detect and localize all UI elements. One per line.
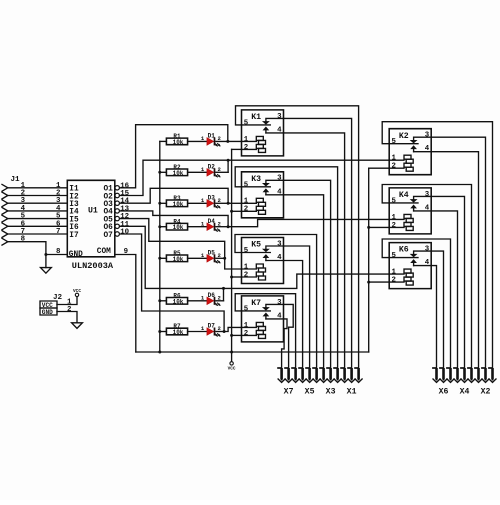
svg-text:I7: I7 [69, 232, 79, 240]
svg-text:5: 5 [392, 197, 397, 205]
svg-text:1: 1 [392, 214, 397, 222]
svg-text:10: 10 [120, 229, 129, 237]
svg-text:3: 3 [277, 240, 282, 248]
svg-text:K2: K2 [399, 132, 409, 141]
svg-text:4: 4 [425, 259, 430, 267]
svg-text:2: 2 [244, 144, 248, 152]
svg-text:4: 4 [277, 126, 282, 134]
svg-text:9: 9 [124, 248, 128, 256]
svg-text:D7: D7 [208, 323, 216, 330]
svg-text:X5: X5 [305, 387, 315, 396]
svg-text:10k: 10k [173, 170, 184, 177]
svg-text:1: 1 [244, 322, 249, 330]
svg-text:X3: X3 [326, 387, 336, 396]
svg-text:4: 4 [425, 204, 430, 212]
svg-text:D1: D1 [208, 133, 216, 140]
svg-text:2: 2 [244, 271, 248, 279]
svg-text:5: 5 [244, 181, 249, 189]
svg-text:7: 7 [56, 228, 60, 236]
svg-text:3: 3 [277, 175, 282, 183]
svg-text:5: 5 [244, 305, 249, 313]
svg-text:2: 2 [392, 163, 396, 171]
svg-text:K1: K1 [251, 113, 261, 122]
svg-text:10k: 10k [173, 256, 184, 263]
svg-text:5: 5 [392, 252, 397, 260]
svg-text:2: 2 [67, 306, 71, 314]
svg-text:5: 5 [392, 138, 397, 146]
svg-text:U1: U1 [88, 207, 98, 216]
svg-text:X6: X6 [439, 387, 449, 396]
svg-text:X2: X2 [481, 387, 491, 396]
svg-text:2: 2 [392, 277, 396, 285]
svg-text:ULN2003A: ULN2003A [72, 261, 114, 271]
svg-text:10k: 10k [173, 139, 184, 146]
svg-text:10k: 10k [173, 224, 184, 231]
svg-text:8: 8 [56, 248, 61, 256]
svg-text:1: 1 [244, 263, 249, 271]
svg-text:COM: COM [97, 248, 111, 256]
svg-text:K3: K3 [251, 175, 261, 184]
svg-text:1: 1 [244, 136, 249, 144]
svg-text:J2: J2 [53, 294, 63, 302]
svg-text:2: 2 [244, 330, 248, 338]
svg-text:K6: K6 [399, 246, 409, 255]
svg-text:4: 4 [425, 145, 430, 153]
svg-text:1: 1 [392, 155, 397, 163]
svg-text:D6: D6 [208, 292, 216, 299]
svg-text:10k: 10k [173, 298, 184, 305]
svg-text:3: 3 [425, 246, 430, 254]
svg-text:5: 5 [244, 247, 249, 255]
svg-text:X1: X1 [347, 387, 357, 396]
svg-text:X7: X7 [284, 387, 294, 396]
svg-text:4: 4 [277, 188, 282, 196]
svg-text:O7: O7 [103, 232, 113, 240]
svg-text:3: 3 [425, 132, 430, 140]
svg-text:VCC: VCC [228, 366, 236, 371]
svg-text:3: 3 [277, 299, 282, 307]
svg-text:VCC: VCC [42, 302, 53, 309]
svg-text:1: 1 [392, 269, 397, 277]
svg-text:3: 3 [425, 191, 430, 199]
svg-text:D3: D3 [208, 195, 216, 202]
svg-text:K7: K7 [251, 299, 261, 308]
svg-text:K5: K5 [251, 241, 261, 250]
svg-text:J1: J1 [11, 176, 21, 184]
svg-text:4: 4 [277, 312, 282, 320]
svg-text:1: 1 [244, 198, 249, 206]
svg-text:2: 2 [392, 222, 396, 230]
svg-text:K4: K4 [399, 191, 409, 200]
svg-text:X4: X4 [460, 387, 470, 396]
svg-text:GND: GND [42, 309, 53, 316]
svg-text:VCC: VCC [73, 289, 81, 294]
svg-text:3: 3 [277, 113, 282, 121]
svg-text:2: 2 [244, 206, 248, 214]
svg-text:10k: 10k [173, 329, 184, 336]
svg-text:D4: D4 [208, 218, 216, 225]
svg-text:GND: GND [69, 251, 83, 259]
svg-text:D2: D2 [208, 164, 216, 171]
svg-text:5: 5 [244, 119, 249, 127]
svg-text:4: 4 [277, 254, 282, 262]
svg-text:8: 8 [21, 236, 26, 244]
svg-text:D5: D5 [208, 250, 216, 257]
svg-text:10k: 10k [173, 201, 184, 208]
